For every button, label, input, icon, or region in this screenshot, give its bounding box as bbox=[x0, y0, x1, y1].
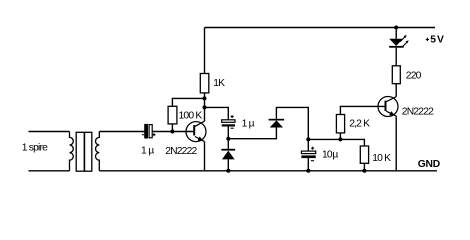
wire C1 to Q1 base bbox=[152, 131, 193, 133]
node dot collector junction bbox=[203, 105, 207, 109]
wire node B to R4 junction bbox=[308, 138, 340, 140]
resistor R5 10K bbox=[360, 146, 368, 163]
wire D2 cathode to node B bbox=[276, 107, 308, 139]
transistor Q2 collector stroke bbox=[386, 97, 396, 102]
svg-text:1K: 1K bbox=[213, 78, 225, 89]
wire R5 bottom to ground bbox=[363, 163, 365, 171]
capacitor C2 plus sign bbox=[231, 115, 234, 118]
wire R2 bottom to base node bbox=[171, 124, 173, 132]
capacitor C3 minus sign bbox=[311, 160, 314, 162]
wire junction to R2 top bbox=[172, 98, 204, 106]
capacitor C3 10u bottom plate bbox=[301, 155, 315, 158]
wire +5V top rail bbox=[205, 27, 436, 29]
wire node A to D2 anode bbox=[228, 128, 276, 139]
transformer T1 secondary winding bbox=[96, 132, 100, 171]
diode D2 triangle bbox=[270, 120, 283, 127]
resistor R4 2,2K bbox=[336, 115, 344, 133]
node A dot bbox=[226, 137, 230, 141]
resistor R2 100K bbox=[168, 106, 177, 124]
transistor Q2 emitter stroke bbox=[386, 111, 396, 116]
transistor Q2 circle bbox=[378, 97, 398, 117]
svg-text:2,2 K: 2,2 K bbox=[349, 119, 370, 130]
wire Q1 collector up bbox=[204, 93, 206, 121]
capacitor C2 minus sign bbox=[231, 127, 234, 129]
node B dot bbox=[306, 137, 310, 141]
wire Q2 collector to R3 bbox=[395, 84, 397, 97]
node dot Q1 base junction bbox=[170, 130, 174, 134]
svg-text:1 spire: 1 spire bbox=[22, 143, 48, 154]
LED D3 triangle bbox=[389, 39, 403, 46]
transistor Q2 base bar bbox=[385, 101, 387, 111]
wire primary bottom bbox=[29, 170, 70, 172]
wire R3 top to LED bbox=[395, 48, 397, 66]
capacitor C1 plus sign bbox=[153, 133, 156, 136]
label supply + 5 V bbox=[426, 38, 429, 41]
wire node A to D1 bbox=[227, 139, 229, 149]
svg-text:µ: µ bbox=[332, 150, 338, 161]
transistor Q1 collector stroke bbox=[195, 121, 205, 126]
svg-text:2N2222: 2N2222 bbox=[165, 146, 197, 157]
capacitor C2 1u bottom plate bbox=[222, 124, 235, 126]
svg-text:µ: µ bbox=[249, 118, 255, 129]
svg-text:5: 5 bbox=[430, 34, 436, 45]
node dot C3 ground bbox=[306, 169, 310, 173]
transistor Q1 emitter arrowhead bbox=[198, 136, 204, 141]
svg-text:10: 10 bbox=[322, 150, 333, 161]
svg-text:10 K: 10 K bbox=[372, 153, 391, 164]
capacitor C3 10u top plate bbox=[301, 151, 315, 154]
transistor Q2 emitter arrowhead bbox=[389, 111, 395, 115]
LED D3 light arrow 2 bbox=[402, 42, 407, 47]
transformer T1 core bbox=[76, 132, 92, 171]
node dot R4 bottom junction bbox=[338, 137, 342, 141]
transformer T1 primary winding bbox=[70, 132, 74, 171]
resistor R3 220 bbox=[392, 66, 400, 84]
resistor R1 1K bbox=[200, 74, 209, 93]
diode D1 triangle bbox=[222, 151, 235, 160]
wire R4 top to Q2 base bbox=[340, 106, 385, 114]
node dot D1 ground bbox=[226, 169, 230, 173]
transistor Q1 emitter stroke bbox=[195, 137, 205, 142]
wire secondary top to C1 bbox=[99, 131, 145, 133]
svg-text:µ: µ bbox=[148, 145, 154, 156]
transistor Q1 circle bbox=[186, 122, 206, 142]
wire R4 bottom stub bbox=[339, 133, 341, 140]
LED D3 cathode bar bbox=[389, 46, 404, 48]
wire D1 anode to ground bbox=[227, 159, 229, 170]
ground rail wire bbox=[99, 170, 437, 172]
capacitor C1 minus sign bbox=[142, 134, 144, 136]
svg-text:V: V bbox=[437, 34, 444, 45]
diode D2 cathode bar bbox=[269, 119, 285, 121]
node dot LED rail bbox=[394, 26, 398, 30]
capacitor C3 plus sign bbox=[311, 147, 314, 150]
wire C2 bottom to node A bbox=[227, 127, 229, 139]
transistor Q1 base bar bbox=[193, 125, 195, 135]
wire primary top bbox=[29, 131, 70, 133]
wire node B to C3 bbox=[307, 139, 309, 151]
wire collector junction to C2 bbox=[205, 107, 229, 119]
diode D1 cathode bar bbox=[221, 149, 235, 151]
wire junction to R5 top bbox=[340, 139, 364, 146]
node dot R1 bottom junction bbox=[203, 96, 207, 100]
svg-text:2N2222: 2N2222 bbox=[402, 106, 434, 117]
LED D3 light arrow 1 bbox=[400, 37, 405, 42]
capacitor C1 1u left plate bbox=[145, 125, 147, 138]
wire LED to +5V rail bbox=[395, 28, 397, 39]
capacitor C1 1u right plate bbox=[149, 125, 152, 138]
wire C3 bottom to ground bbox=[307, 158, 309, 171]
svg-text:220: 220 bbox=[406, 70, 422, 81]
wire Q1 emitter down to ground bbox=[204, 142, 206, 171]
node dot R5 ground bbox=[362, 169, 366, 173]
svg-text:100 K: 100 K bbox=[179, 110, 203, 121]
wire R1 top to +5V rail bbox=[204, 28, 206, 74]
capacitor C2 1u top plate bbox=[222, 120, 235, 123]
wire Q2 emitter to ground bbox=[395, 116, 397, 171]
svg-text:GND: GND bbox=[418, 159, 440, 170]
